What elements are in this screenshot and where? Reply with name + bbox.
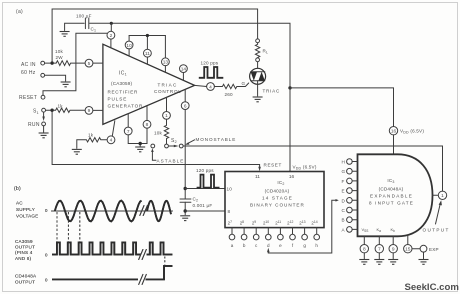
svg-text:1k: 1k <box>58 104 64 109</box>
svg-text:EXP: EXP <box>429 247 439 252</box>
waveform AC supply voltage <box>16 200 172 221</box>
resistor 10k 2W <box>54 49 85 66</box>
svg-text:8: 8 <box>146 122 149 128</box>
svg-text:120 pps: 120 pps <box>196 168 214 173</box>
svg-text:4: 4 <box>209 84 212 90</box>
node S1 <box>33 108 54 115</box>
svg-text:OUTPUT: OUTPUT <box>15 245 35 250</box>
resistor RL <box>255 39 268 68</box>
svg-text:10: 10 <box>227 186 233 191</box>
gate input D <box>342 198 358 204</box>
ground gate pin 8 <box>359 260 369 265</box>
svg-text:11: 11 <box>145 51 150 57</box>
svg-text:CD4048A: CD4048A <box>15 274 37 279</box>
pin 2 <box>107 23 115 48</box>
waveform dashed zero crossings <box>57 212 80 242</box>
break marks sine <box>140 206 148 216</box>
pulse label 120 pps (counter) <box>196 168 220 188</box>
svg-text:F: F <box>342 179 345 184</box>
wire pins 7,8 to ground <box>128 128 147 146</box>
counter U2 CD4020A box <box>225 172 324 228</box>
dashed step align <box>164 257 166 265</box>
svg-text:G: G <box>242 81 246 86</box>
svg-text:7: 7 <box>378 247 381 253</box>
ground C2 <box>180 216 190 221</box>
waveform AC supply voltage <box>16 200 172 221</box>
wire C2 to pin 8 counter <box>185 210 225 212</box>
triac <box>250 68 280 96</box>
pulse label 120 pps (output) <box>199 61 224 78</box>
counter output 2^11 terminal e <box>275 220 283 248</box>
svg-text:2W: 2W <box>56 55 64 60</box>
svg-text:7: 7 <box>127 129 130 135</box>
counter output 2^10 terminal d <box>263 220 271 248</box>
svg-text:RECTIFIER: RECTIFIER <box>108 90 138 95</box>
svg-text:260: 260 <box>225 92 234 97</box>
svg-text:e: e <box>279 243 282 248</box>
pin 6 <box>181 90 189 110</box>
svg-text:(b): (b) <box>14 186 21 192</box>
break marks pulses <box>139 250 147 260</box>
node RESET <box>19 33 107 101</box>
svg-text:SeekIC.com: SeekIC.com <box>405 282 459 293</box>
wire pin6 down to C2 <box>184 110 187 200</box>
svg-text:AC: AC <box>16 200 23 205</box>
svg-text:13: 13 <box>163 60 169 66</box>
pin 4 output <box>195 83 215 91</box>
svg-text:AC IN: AC IN <box>21 62 36 68</box>
svg-text:H: H <box>342 160 345 165</box>
svg-text:1k: 1k <box>88 132 94 137</box>
gate input B <box>342 217 358 223</box>
svg-text:14: 14 <box>181 66 187 72</box>
dashed step align <box>164 257 166 265</box>
svg-text:MONOSTABLE: MONOSTABLE <box>196 137 236 142</box>
wire S1 node to counter reset <box>52 112 260 167</box>
wire reset arrow into counter <box>258 167 261 171</box>
svg-text:b: b <box>243 243 246 248</box>
svg-text:E: E <box>342 189 345 194</box>
svg-text:B: B <box>342 218 345 223</box>
gate input G <box>342 168 358 174</box>
ground gate pin 7 <box>374 260 384 265</box>
svg-text:h: h <box>315 243 318 248</box>
pin 7 <box>124 114 132 135</box>
waveform CA3059 output <box>15 239 172 261</box>
svg-text:15: 15 <box>405 247 411 253</box>
waveform dashed zero crossings <box>57 212 80 242</box>
ground 1k pin4 <box>72 149 82 154</box>
svg-text:2: 2 <box>110 33 113 39</box>
svg-text:11: 11 <box>255 174 260 180</box>
svg-text:6: 6 <box>184 103 187 109</box>
wire feedback output to S2 monostable <box>183 146 442 191</box>
svg-text:16: 16 <box>391 129 397 135</box>
gate output pin 1 <box>433 191 447 199</box>
wire C2 to pin 10 counter <box>185 188 225 190</box>
resistor 10k (pin 1) <box>154 119 169 144</box>
wire bus pins 10-13 <box>129 34 165 37</box>
ground AC neutral <box>61 82 71 87</box>
svg-text:ASTABLE: ASTABLE <box>157 158 184 163</box>
counter output 2^7 terminal a <box>228 220 235 248</box>
counter output 2^13 terminal g <box>299 220 307 248</box>
svg-text:PULSE: PULSE <box>108 97 127 102</box>
gate pin 8 <box>360 236 368 258</box>
node pin2 junction <box>110 22 113 25</box>
switch RUN <box>28 112 45 132</box>
svg-text:CA3059: CA3059 <box>15 239 33 244</box>
ground pins 7,8 <box>135 147 145 152</box>
switch S2 <box>151 138 183 148</box>
svg-text:SUPPLY: SUPPLY <box>16 207 35 212</box>
svg-text:0.001 μF: 0.001 μF <box>193 203 213 208</box>
svg-text:(a): (a) <box>16 9 23 15</box>
ground RUN <box>39 133 49 138</box>
svg-text:16: 16 <box>289 174 295 180</box>
svg-text:RESET: RESET <box>19 95 37 101</box>
svg-text:9: 9 <box>88 108 91 114</box>
svg-text:d: d <box>267 243 270 248</box>
capacitor C1 100uF <box>76 14 96 33</box>
pin 14 <box>180 65 188 81</box>
label ASTABLE <box>151 148 183 163</box>
svg-text:AND 8): AND 8) <box>15 256 32 261</box>
gate U3 CD4048A <box>358 154 433 236</box>
svg-text:(PINS 4: (PINS 4 <box>15 250 33 255</box>
pin 10 <box>125 36 133 57</box>
ground C1 <box>60 32 70 37</box>
break marks output <box>139 274 147 284</box>
svg-text:CONTROL: CONTROL <box>154 89 181 94</box>
ground triac <box>253 97 263 102</box>
waveform CA3059 output <box>15 239 172 261</box>
svg-text:OUTPUT: OUTPUT <box>15 279 35 284</box>
break marks sine <box>140 206 148 216</box>
pin 11 <box>144 36 152 65</box>
svg-text:EXPANDABLE: EXPANDABLE <box>370 194 412 199</box>
svg-text:8: 8 <box>228 209 231 214</box>
svg-text:Kb: Kb <box>391 227 396 233</box>
svg-text:10k: 10k <box>154 131 163 136</box>
svg-text:10: 10 <box>126 43 132 49</box>
svg-text:a: a <box>231 243 234 248</box>
svg-text:VOLTAGE: VOLTAGE <box>16 214 38 219</box>
svg-text:TRIAC: TRIAC <box>158 83 177 88</box>
counter output 2^12 terminal f <box>287 220 295 248</box>
gate input F <box>342 178 358 184</box>
svg-text:BINARY COUNTER: BINARY COUNTER <box>250 203 304 208</box>
gate input E <box>342 188 358 194</box>
svg-text:GENERATOR: GENERATOR <box>108 104 143 109</box>
gate input H <box>342 159 358 165</box>
label MONOSTABLE <box>185 137 235 145</box>
gate input C <box>342 207 358 213</box>
gate pin 7 <box>375 236 383 258</box>
ground EXP <box>419 260 429 265</box>
waveform CD4048A output <box>15 266 173 284</box>
svg-text:g: g <box>303 243 306 248</box>
svg-text:14 STAGE: 14 STAGE <box>262 196 292 201</box>
pin 5 <box>85 59 103 67</box>
svg-text:RUN: RUN <box>28 122 40 128</box>
pin 1 <box>163 98 171 120</box>
break marks output <box>139 274 147 284</box>
svg-text:(CD4048A): (CD4048A) <box>379 187 404 192</box>
pin 13 <box>162 36 170 73</box>
node EXP <box>412 245 439 258</box>
counter output 2^14 terminal h <box>311 220 319 248</box>
svg-text:9: 9 <box>392 247 395 253</box>
svg-text:1: 1 <box>441 193 444 199</box>
svg-text:10k: 10k <box>55 49 64 54</box>
break marks pulses <box>139 250 147 260</box>
pin 9 <box>85 107 103 115</box>
svg-text:8: 8 <box>363 247 366 253</box>
svg-text:120 pps: 120 pps <box>201 61 219 66</box>
wire d to gate D <box>267 199 339 253</box>
svg-text:4: 4 <box>110 138 113 144</box>
wire V+ to gate VDD <box>290 88 394 127</box>
gate pin 9 <box>389 236 397 258</box>
waveform CD4048A output <box>15 266 173 284</box>
resistor 260 <box>214 81 248 97</box>
pin 16 gate VDD <box>389 127 424 155</box>
svg-text:TRIAC: TRIAC <box>263 89 280 94</box>
resistor 1k (pin 4) <box>77 132 107 148</box>
svg-text:1: 1 <box>165 113 168 119</box>
label OUTPUT <box>423 200 449 233</box>
pin 4 lower-left <box>107 121 115 144</box>
svg-text:G: G <box>342 169 346 174</box>
counter output 2^9 terminal c <box>252 220 259 248</box>
svg-text:(CD4020A): (CD4020A) <box>265 189 290 194</box>
capacitor C2 0.001uF <box>180 197 212 215</box>
op-amp U1 CA3059 triangle <box>103 44 195 124</box>
svg-text:8 INPUT GATE: 8 INPUT GATE <box>369 201 413 206</box>
counter output 2^8 terminal b <box>240 220 247 248</box>
svg-text:RESET: RESET <box>264 162 282 167</box>
gate pin 15 <box>404 235 412 253</box>
svg-text:Ka: Ka <box>377 227 382 233</box>
svg-text:5: 5 <box>88 61 91 67</box>
pin 8 <box>143 106 151 129</box>
wire V+ to counter pin16 <box>289 88 291 172</box>
wire V+ bus top <box>65 23 290 87</box>
svg-text:60 Hz: 60 Hz <box>21 70 36 76</box>
gate input A <box>342 227 358 233</box>
svg-text:100 μF: 100 μF <box>76 14 92 19</box>
node V+ junction <box>288 86 291 89</box>
svg-text:VSS: VSS <box>362 227 369 233</box>
ground gate pin 9 <box>388 260 398 265</box>
node AC IN <box>21 61 66 81</box>
resistor 1k (S1 to pin 9) <box>54 104 85 113</box>
svg-text:(CA3059): (CA3059) <box>111 81 133 86</box>
wire load line top <box>52 9 258 63</box>
